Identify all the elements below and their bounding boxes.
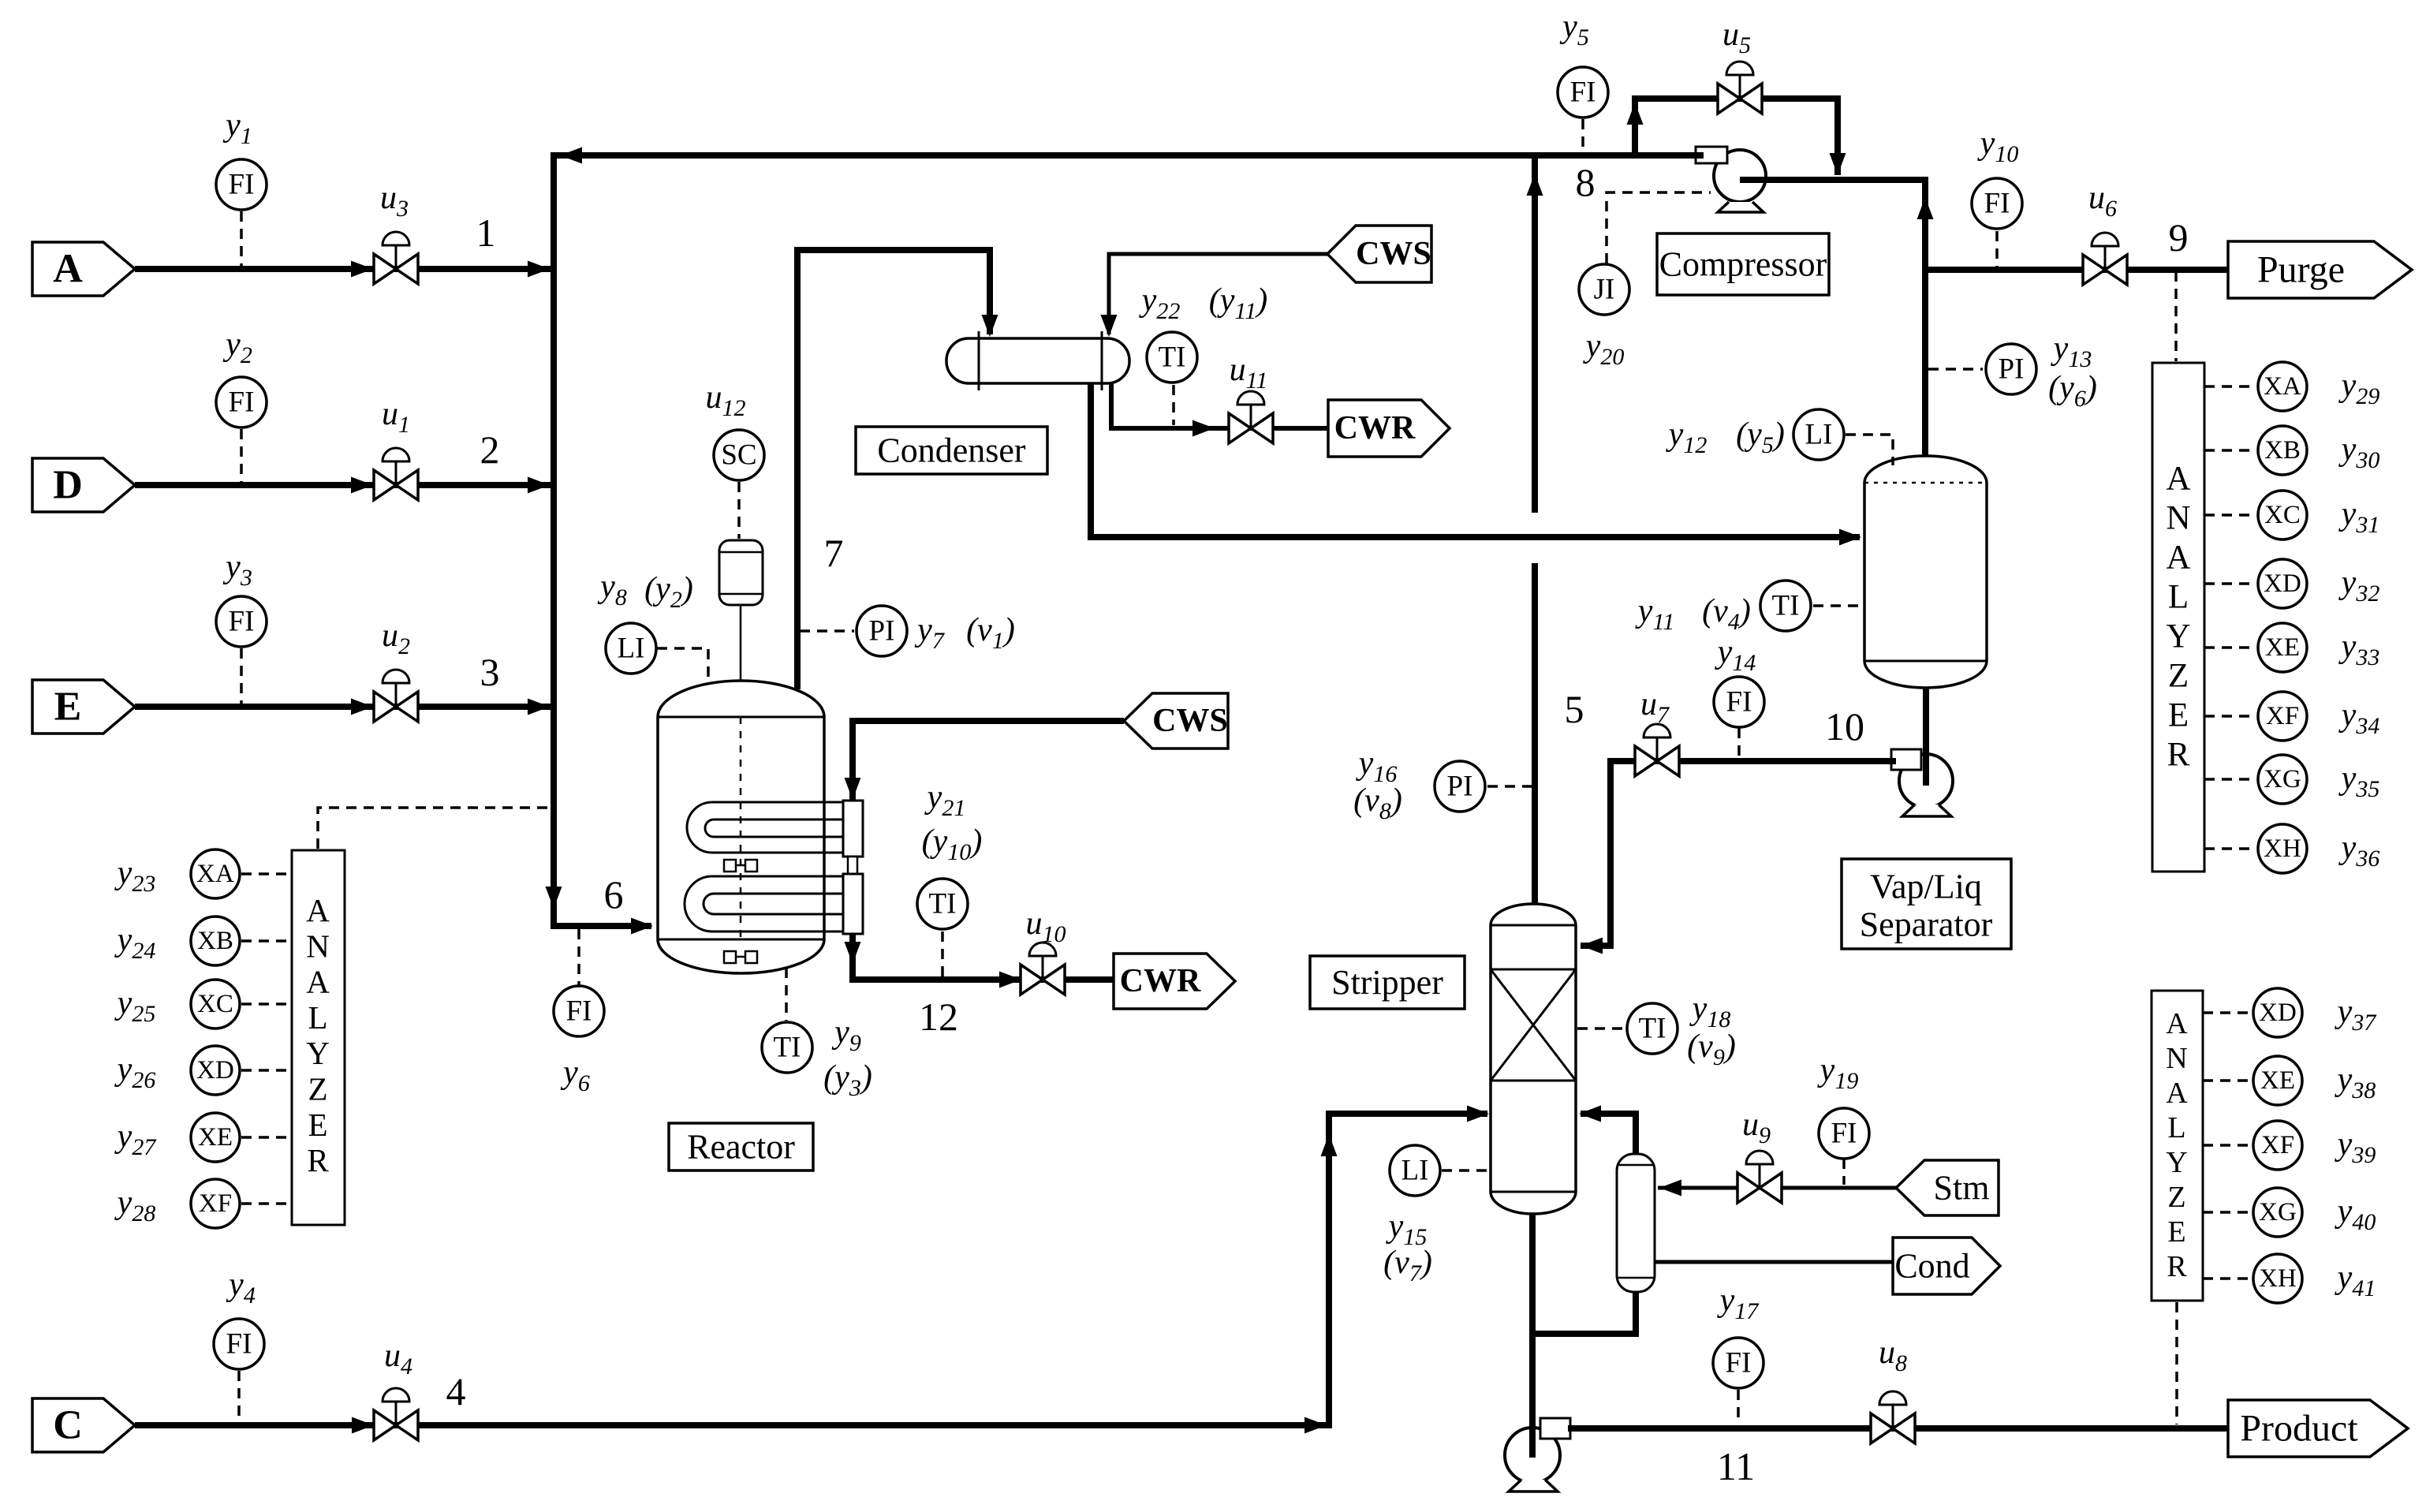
utility tag Stm steam (1896, 1160, 1999, 1215)
svg-text:Compressor: Compressor (1659, 245, 1827, 284)
instrument XB y30 (2258, 426, 2307, 475)
arrow feed D at valve (351, 477, 373, 494)
signal LI y12 separator level (1846, 435, 1893, 465)
arrow reboiler return into stripper (1579, 1106, 1601, 1122)
signal SC u12 to agitator (737, 482, 741, 539)
reactor cooling coil lower U-tube (685, 876, 844, 931)
valve u6 (2083, 233, 2127, 285)
svg-text:XF: XF (2266, 702, 2299, 730)
arrow stream 7 into condenser (982, 315, 998, 337)
signal TI y21 coolant temperature (941, 931, 944, 976)
signal FI y1 (240, 211, 243, 266)
signal TI y9 reactor temperature (785, 968, 788, 1021)
svg-text:SC: SC (721, 439, 756, 472)
signal XF left analyzer (241, 1202, 290, 1205)
wire feed C stream 4 to stripper (135, 1114, 1487, 1425)
arrow stream 1 into bus (528, 261, 550, 278)
instrument XG y35 (2258, 755, 2307, 804)
svg-text:E: E (2168, 697, 2189, 734)
svg-text:1: 1 (476, 211, 496, 255)
svg-text:(y5): (y5) (1736, 416, 1785, 458)
wire condenser cooling water return CWR (1111, 375, 1328, 428)
wire reactor overhead stream 7 to condenser (797, 250, 990, 689)
arrow CWS into condenser (1101, 315, 1118, 337)
svg-text:10: 10 (1825, 704, 1864, 749)
svg-text:XH: XH (2264, 834, 2301, 863)
signal XB left analyzer (241, 939, 290, 943)
wire stripper bottoms to pump (1529, 1214, 1536, 1458)
signal FI y4 (237, 1371, 241, 1422)
instrument TI y22 (1147, 332, 1197, 383)
svg-text:Purge: Purge (2257, 249, 2345, 291)
instrument XD y26 (191, 1046, 240, 1095)
sink tag Purge (2228, 241, 2412, 298)
instrument XB y24 (191, 917, 240, 965)
instrument XD y32 (2258, 559, 2307, 608)
svg-text:LI: LI (1805, 419, 1833, 451)
wire feed A stream 1 (135, 266, 551, 272)
instrument FI y5 (1558, 67, 1608, 118)
arrow feed A at valve (351, 261, 373, 278)
instrument FI y14 (1714, 677, 1764, 727)
arrow condensed into separator (1839, 529, 1861, 546)
signal XC left analyzer (241, 1002, 290, 1006)
label Vap/Liq Separator (1842, 859, 2011, 949)
reactor coil nozzle box lower (843, 874, 863, 934)
svg-text:XB: XB (197, 927, 233, 955)
arrow stream 10 into stripper (1581, 938, 1603, 954)
signal PI y16 stripper pressure (1487, 785, 1532, 788)
svg-text:Y: Y (2166, 618, 2190, 655)
wire recycle line 8 / left feed bus / reactor feed 6 (554, 155, 1704, 926)
signal XE purge analyzer (2204, 646, 2256, 649)
arrow feed C at valve (352, 1417, 374, 1434)
svg-text:3: 3 (480, 650, 500, 694)
wire reboiler draw-off (1532, 1289, 1636, 1334)
valve u10 (1021, 943, 1065, 995)
svg-text:FI: FI (226, 1328, 252, 1361)
wire separator liquid stream 10 to stripper (1581, 761, 1896, 946)
instrument FI y10 (1972, 178, 2022, 229)
svg-text:TI: TI (929, 888, 957, 920)
svg-text:LI: LI (1401, 1155, 1429, 1187)
arrow stream 4 at riser (1304, 1417, 1327, 1434)
signal FI y2 (240, 429, 243, 482)
signal LI y15 stripper level (1442, 1169, 1487, 1172)
reactor coil nozzle connector (848, 857, 857, 874)
svg-text:5: 5 (1565, 687, 1584, 731)
instrument LI y8 (606, 623, 656, 674)
condenser shell (946, 331, 1129, 390)
instrument TI y11 (1760, 581, 1811, 631)
valve u11 (1229, 391, 1273, 443)
svg-text:(y6): (y6) (2048, 370, 2097, 412)
svg-text:XF: XF (2261, 1131, 2294, 1159)
svg-text:XC: XC (197, 990, 233, 1018)
signal XD purge analyzer (2204, 582, 2256, 585)
svg-text:R: R (2167, 737, 2190, 774)
svg-text:Condenser: Condenser (877, 431, 1026, 470)
svg-text:XE: XE (2265, 633, 2300, 662)
svg-text:XD: XD (2264, 569, 2301, 598)
wire condenser outlet to separator (1091, 377, 1860, 537)
signal analyzer 2 sample from purge (2174, 271, 2178, 361)
valve u9 (1737, 1151, 1782, 1203)
signal FI y19 steam flow (1842, 1159, 1846, 1185)
svg-text:7: 7 (824, 531, 844, 575)
instrument TI y9 (762, 1022, 812, 1073)
wire condensate line from reboiler (1655, 1260, 1893, 1264)
svg-text:(y2): (y2) (644, 571, 693, 613)
svg-text:Separator: Separator (1860, 905, 1993, 944)
wire reactor cooling water return stream 12 CWR (853, 934, 1114, 980)
svg-text:(v1): (v1) (966, 612, 1015, 654)
valve u2 (374, 670, 418, 722)
svg-text:A: A (306, 964, 330, 1000)
wire reboiler return to stripper (1581, 1114, 1636, 1156)
stripper reboiler (1617, 1154, 1655, 1292)
svg-text:LI: LI (618, 633, 645, 665)
svg-text:A: A (2166, 461, 2190, 498)
signal XA purge analyzer (2204, 385, 2256, 388)
valve u1 (374, 448, 418, 500)
svg-text:Vap/Liq: Vap/Liq (1870, 868, 1982, 906)
svg-text:PI: PI (1447, 771, 1473, 803)
signal XF product analyzer (2203, 1144, 2252, 1147)
wire steam line to reboiler (1658, 1186, 1896, 1190)
signal XB purge analyzer (2204, 449, 2256, 452)
svg-text:12: 12 (919, 995, 958, 1039)
reactor vessel (658, 681, 824, 973)
svg-text:FI: FI (229, 606, 255, 638)
svg-text:FI: FI (229, 169, 255, 201)
arrow stream 5 up (1527, 174, 1543, 196)
svg-text:FI: FI (1726, 686, 1752, 719)
svg-text:Product: Product (2240, 1408, 2358, 1450)
reactor cooling coil upper U-tube (687, 802, 844, 853)
signal analyzer 3 sample from product (2175, 1302, 2178, 1424)
wire compressor bypass with valve u5 (1635, 99, 1838, 175)
instrument PI y16 (1435, 761, 1485, 812)
arrow stream 4 into stripper (1467, 1106, 1489, 1122)
svg-text:PI: PI (869, 615, 895, 648)
instrument JI y20 (1579, 264, 1629, 315)
instrument FI y6 (554, 986, 604, 1036)
svg-text:Cond: Cond (1894, 1247, 1969, 1286)
feed tag C (32, 1398, 135, 1452)
label Reactor (669, 1123, 813, 1170)
label Condenser (856, 427, 1047, 474)
instrument FI y19 (1819, 1108, 1869, 1159)
svg-text:XE: XE (2260, 1066, 2295, 1095)
svg-text:XB: XB (2264, 436, 2301, 465)
signal FI y3 (240, 648, 243, 704)
separator bottoms pump (1891, 749, 1953, 816)
svg-text:XA: XA (2264, 372, 2301, 401)
svg-text:L: L (2167, 1111, 2185, 1144)
instrument FI y4 (214, 1319, 264, 1369)
instrument XE y27 (191, 1113, 240, 1162)
signal FI y17 product flow (1737, 1390, 1740, 1424)
arrow coil outlet down (845, 942, 861, 964)
svg-text:Y: Y (306, 1035, 330, 1071)
svg-text:11: 11 (1717, 1444, 1755, 1488)
instrument FI y3 (216, 596, 267, 647)
signal FI y6 stream 6 flow (577, 929, 580, 985)
svg-text:FI: FI (1984, 188, 2010, 220)
svg-text:9: 9 (2169, 215, 2189, 259)
wire product stream 11 (1568, 1425, 2228, 1432)
svg-text:Z: Z (2167, 1181, 2185, 1214)
signal TI y11 separator temperature (1813, 604, 1861, 607)
instrument XF y39 (2253, 1121, 2302, 1170)
signal XC purge analyzer (2204, 513, 2256, 517)
svg-text:XF: XF (199, 1189, 232, 1218)
svg-text:TI: TI (774, 1032, 801, 1064)
instrument XE y33 (2258, 623, 2307, 672)
svg-text:N: N (2166, 500, 2190, 537)
signal XA left analyzer (241, 872, 290, 875)
signal XF purge analyzer (2204, 715, 2256, 718)
svg-text:PI: PI (1999, 353, 2025, 386)
instrument TI y21 (917, 879, 968, 929)
svg-text:Y: Y (2166, 1146, 2187, 1179)
svg-text:CWR: CWR (1334, 410, 1416, 446)
svg-text:A: A (2166, 1007, 2188, 1040)
signal TI y18 stripper temperature (1577, 1027, 1626, 1030)
signal XG purge analyzer (2204, 778, 2256, 781)
instrument XC y31 (2258, 491, 2307, 539)
wire stripper overhead stream 5 lower (1532, 563, 1538, 904)
svg-text:TI: TI (1772, 590, 1800, 622)
valve u7 (1635, 724, 1679, 776)
svg-text:FI: FI (229, 386, 255, 419)
svg-text:FI: FI (1831, 1118, 1857, 1150)
arrow stream 2 into bus (528, 477, 550, 494)
utility tag CWS condenser (1327, 226, 1431, 282)
svg-text:E: E (54, 685, 82, 730)
signal TI y22 condenser coolant temperature (1172, 385, 1175, 425)
svg-text:A: A (306, 892, 330, 928)
svg-text:XH: XH (2259, 1264, 2297, 1293)
signal FI y14 separator underflow (1737, 728, 1741, 758)
svg-text:Stm: Stm (1934, 1169, 1990, 1208)
signal XD product analyzer (2203, 1011, 2252, 1014)
instrument TI y18 (1627, 1003, 1678, 1054)
instrument LI y15 (1390, 1145, 1440, 1196)
reactor agitator impeller upper (724, 860, 757, 872)
feed tag D (32, 458, 135, 512)
svg-text:N: N (2166, 1042, 2187, 1075)
wire stripper overhead stream 5 upper (1532, 152, 1538, 513)
wire reactor cooling water supply CWS (853, 721, 1124, 801)
instrument XA y23 (191, 849, 240, 898)
svg-text:Z: Z (2168, 658, 2189, 695)
svg-text:L: L (308, 999, 327, 1036)
svg-text:2: 2 (480, 427, 500, 472)
feed tag E (32, 680, 135, 734)
arrow CWS into coil (845, 778, 861, 800)
svg-text:FI: FI (1726, 1347, 1752, 1379)
label Stripper (1310, 956, 1465, 1009)
svg-text:Z: Z (308, 1071, 327, 1107)
svg-text:XD: XD (196, 1056, 234, 1085)
arrow bus down (546, 887, 562, 909)
compressor (1696, 147, 1766, 212)
signal FI y5 recycle flow (1581, 119, 1584, 152)
instrument XH y36 (2258, 824, 2307, 873)
reactor agitator centerline (740, 717, 742, 939)
svg-text:FI: FI (566, 995, 592, 1028)
signal PI y13 separator pressure (1928, 368, 1983, 371)
instrument SC u12 (714, 430, 764, 480)
valve u4 (374, 1388, 418, 1440)
svg-text:E: E (2167, 1215, 2185, 1249)
svg-text:(y3): (y3) (823, 1059, 872, 1101)
signal XD left analyzer (241, 1069, 290, 1072)
signal LI y8 reactor level (657, 648, 708, 679)
feed tag A (32, 242, 135, 296)
instrument XF y28 (191, 1179, 240, 1228)
label Compressor (1657, 233, 1829, 295)
svg-text:TI: TI (1159, 342, 1186, 374)
svg-text:JI: JI (1594, 274, 1615, 306)
svg-text:FI: FI (1570, 77, 1596, 109)
arrow CWR at valve (1192, 420, 1215, 437)
svg-text:(v7): (v7) (1383, 1245, 1432, 1286)
vap/liq separator vessel (1864, 456, 1987, 688)
signal XH purge analyzer (2204, 847, 2256, 850)
signal JI y20 compressor work (1607, 192, 1711, 263)
arrow stream 4 riser up (1321, 1134, 1338, 1156)
arrow stream 3 into bus (528, 699, 550, 715)
svg-text:Stripper: Stripper (1331, 963, 1443, 1002)
svg-text:A: A (2166, 539, 2190, 577)
wire feed E stream 3 (135, 704, 551, 710)
svg-text:CWS: CWS (1152, 703, 1228, 739)
wire purge stream 9 (1925, 267, 2228, 273)
utility tag CWR reactor (1114, 954, 1235, 1009)
svg-text:XE: XE (198, 1123, 233, 1152)
analyzer box product (2152, 991, 2203, 1301)
svg-text:CWR: CWR (1120, 963, 1201, 999)
svg-text:N: N (306, 928, 330, 964)
signal PI y7 reactor pressure (800, 629, 854, 633)
sink tag Product (2228, 1400, 2408, 1457)
wire condenser cooling water supply CWS (1109, 254, 1327, 334)
instrument XE y38 (2253, 1056, 2302, 1105)
valve u8 (1871, 1391, 1915, 1443)
svg-text:D: D (53, 463, 83, 508)
arrow feed E at valve (351, 699, 373, 715)
stripper column (1491, 904, 1576, 1214)
instrument LI y12 (1793, 409, 1844, 460)
svg-text:XG: XG (2264, 765, 2301, 793)
instrument XC y25 (191, 980, 240, 1029)
instrument PI y7 (857, 606, 907, 656)
arrow stream 6 into reactor (631, 918, 653, 935)
reactor agitator shaft (740, 605, 742, 681)
svg-text:XC: XC (2264, 501, 2301, 529)
svg-text:XA: XA (196, 860, 234, 888)
utility tag CWR condenser (1328, 400, 1450, 457)
utility tag CWS reactor (1124, 693, 1228, 749)
instrument XD y37 (2253, 988, 2302, 1037)
instrument FI y17 (1713, 1338, 1764, 1388)
signal FI y10 purge flow (1995, 231, 1999, 267)
signal XE product analyzer (2203, 1079, 2252, 1082)
wire separator overhead / compressor suction (1740, 180, 1925, 456)
svg-text:C: C (53, 1403, 83, 1448)
instrument XG y40 (2253, 1188, 2302, 1237)
arrow bypass up (1627, 103, 1644, 125)
svg-text:4: 4 (446, 1369, 466, 1413)
analyzer box purge (2152, 363, 2204, 872)
utility tag Cond condensate (1893, 1238, 2000, 1294)
svg-text:L: L (2168, 579, 2189, 616)
svg-text:XG: XG (2259, 1198, 2297, 1226)
svg-text:(v9): (v9) (1687, 1029, 1736, 1070)
instrument PI y13 (1986, 344, 2036, 394)
instrument XH y41 (2253, 1254, 2302, 1303)
svg-text:Reactor: Reactor (687, 1128, 795, 1167)
svg-text:A: A (53, 247, 83, 292)
signal XG product analyzer (2203, 1211, 2252, 1214)
arrow separator overhead up (1917, 197, 1934, 219)
analyzer box stream 6 (292, 850, 345, 1225)
wire separator bottoms to pump (1923, 688, 1929, 786)
svg-text:R: R (2167, 1250, 2187, 1283)
svg-text:XD: XD (2259, 999, 2297, 1027)
stripper bottoms pump (1505, 1418, 1570, 1491)
reactor agitator impeller lower (724, 951, 757, 963)
svg-text:R: R (307, 1142, 329, 1178)
signal XH product analyzer (2203, 1277, 2252, 1280)
signal analyzer 1 sample from stream 6 (318, 808, 551, 849)
svg-text:CWS: CWS (1356, 236, 1431, 272)
svg-text:TI: TI (1639, 1013, 1666, 1045)
svg-text:(v8): (v8) (1353, 782, 1402, 824)
svg-text:E: E (308, 1107, 327, 1143)
reactor coil nozzle box upper (843, 801, 863, 857)
arrow bypass down (1830, 153, 1846, 175)
arrow stream 12 at valve (999, 972, 1021, 988)
arrow recycle into bus (560, 147, 582, 164)
signal XE left analyzer (241, 1136, 290, 1139)
wire feed D stream 2 (135, 482, 551, 488)
instrument XA y29 (2258, 362, 2307, 411)
svg-text:(v4): (v4) (1702, 593, 1751, 635)
instrument FI y1 (216, 159, 267, 210)
svg-text:6: 6 (604, 872, 624, 917)
reactor agitator motor (719, 540, 763, 605)
arrow steam into reboiler (1659, 1180, 1681, 1197)
valve u5 (1718, 62, 1762, 114)
valve u3 (374, 232, 418, 284)
svg-text:8: 8 (1576, 160, 1596, 204)
instrument XF y34 (2258, 692, 2307, 741)
instrument FI y2 (216, 377, 267, 427)
svg-text:A: A (2166, 1077, 2188, 1110)
